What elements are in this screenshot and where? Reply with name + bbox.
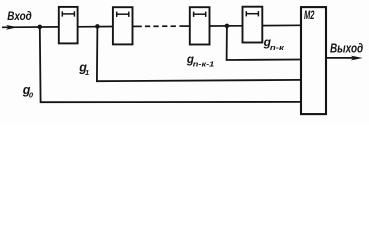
svg-text:1: 1 <box>85 68 89 77</box>
svg-text:0: 0 <box>29 91 34 100</box>
svg-text:n-к-1: n-к-1 <box>193 59 215 68</box>
svg-text:М2: М2 <box>304 10 315 22</box>
svg-text:Вход: Вход <box>7 9 32 23</box>
svg-text:Выход: Выход <box>330 41 363 56</box>
svg-text:n-к: n-к <box>270 43 286 52</box>
